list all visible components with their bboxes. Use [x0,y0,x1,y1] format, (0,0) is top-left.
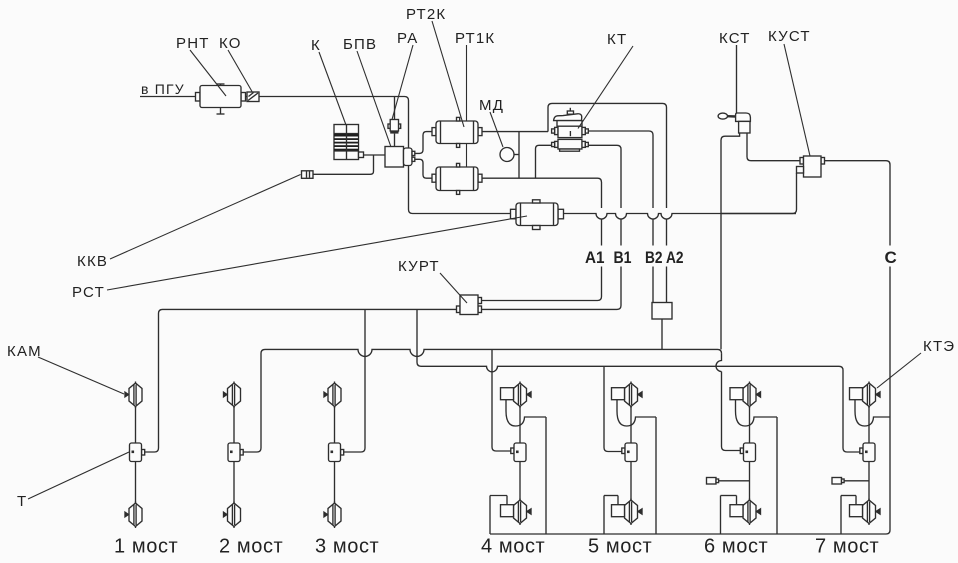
svg-text:КУРТ: КУРТ [398,258,440,275]
svg-text:КО: КО [219,35,242,52]
svg-text:К: К [311,37,321,54]
svg-text:КУСТ: КУСТ [768,28,811,45]
svg-text:КТЭ: КТЭ [923,338,955,355]
svg-text:2 мост: 2 мост [219,536,283,558]
svg-text:РА: РА [397,30,418,47]
svg-text:РСТ: РСТ [72,284,105,301]
svg-text:КТ: КТ [607,31,627,48]
svg-text:С: С [885,248,897,267]
svg-text:В2: В2 [645,248,663,267]
svg-text:РНТ: РНТ [176,35,210,52]
svg-text:БПВ: БПВ [343,36,377,53]
svg-text:РТ1К: РТ1К [455,30,495,47]
svg-text:7 мост: 7 мост [815,536,879,558]
svg-text:4 мост: 4 мост [481,536,545,558]
svg-text:КСТ: КСТ [719,30,751,47]
svg-text:Т: Т [17,493,27,510]
svg-text:ККВ: ККВ [77,253,108,270]
svg-text:МД: МД [479,97,504,114]
svg-text:А1: А1 [585,248,605,267]
svg-text:3 мост: 3 мост [315,536,379,558]
svg-text:КАМ: КАМ [7,343,42,360]
svg-text:В1: В1 [614,248,632,267]
svg-text:5 мост: 5 мост [588,536,652,558]
svg-text:6 мост: 6 мост [704,536,768,558]
svg-text:РТ2К: РТ2К [406,6,446,23]
svg-text:в ПГУ: в ПГУ [141,81,185,97]
svg-text:1 мост: 1 мост [114,536,178,558]
svg-text:А2: А2 [666,248,684,267]
